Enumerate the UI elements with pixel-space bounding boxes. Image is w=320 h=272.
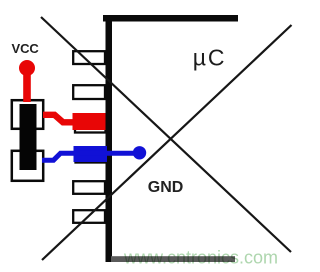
pin 1 [73, 51, 105, 64]
svg-text:µC: µC [193, 45, 226, 71]
svg-text:www.cntronics.com: www.cntronics.com [123, 248, 278, 268]
wire VCC to J1 (red) [23, 68, 31, 102]
U1 bottom edge (gray) [111, 256, 235, 262]
wire J1 to pin 4 (blue) [42, 153, 139, 160]
node dot on blue wire (GND net) [133, 146, 146, 159]
pin 3 (red, VCC supply pin) [73, 113, 106, 133]
VCC terminal dot [19, 60, 35, 76]
pin 2 [73, 85, 105, 99]
pin 6 [73, 210, 105, 223]
X cross line 1 (top-left to bottom-right) [41, 17, 291, 252]
X cross line 2 (top-right to bottom-left) [42, 25, 292, 260]
wire J1 to pin 3 (red) [43, 115, 74, 123]
jumper J1 shunt bar [20, 104, 37, 170]
pin 5 [73, 181, 105, 194]
jumper J1 top socket [12, 100, 43, 129]
microcontroller U1 body [103, 15, 238, 262]
svg-text:GND: GND [148, 179, 184, 196]
pin 4 (blue, GND pin) [74, 146, 108, 163]
jumper J1 bottom socket [12, 151, 43, 181]
svg-text:VCC: VCC [12, 41, 40, 56]
